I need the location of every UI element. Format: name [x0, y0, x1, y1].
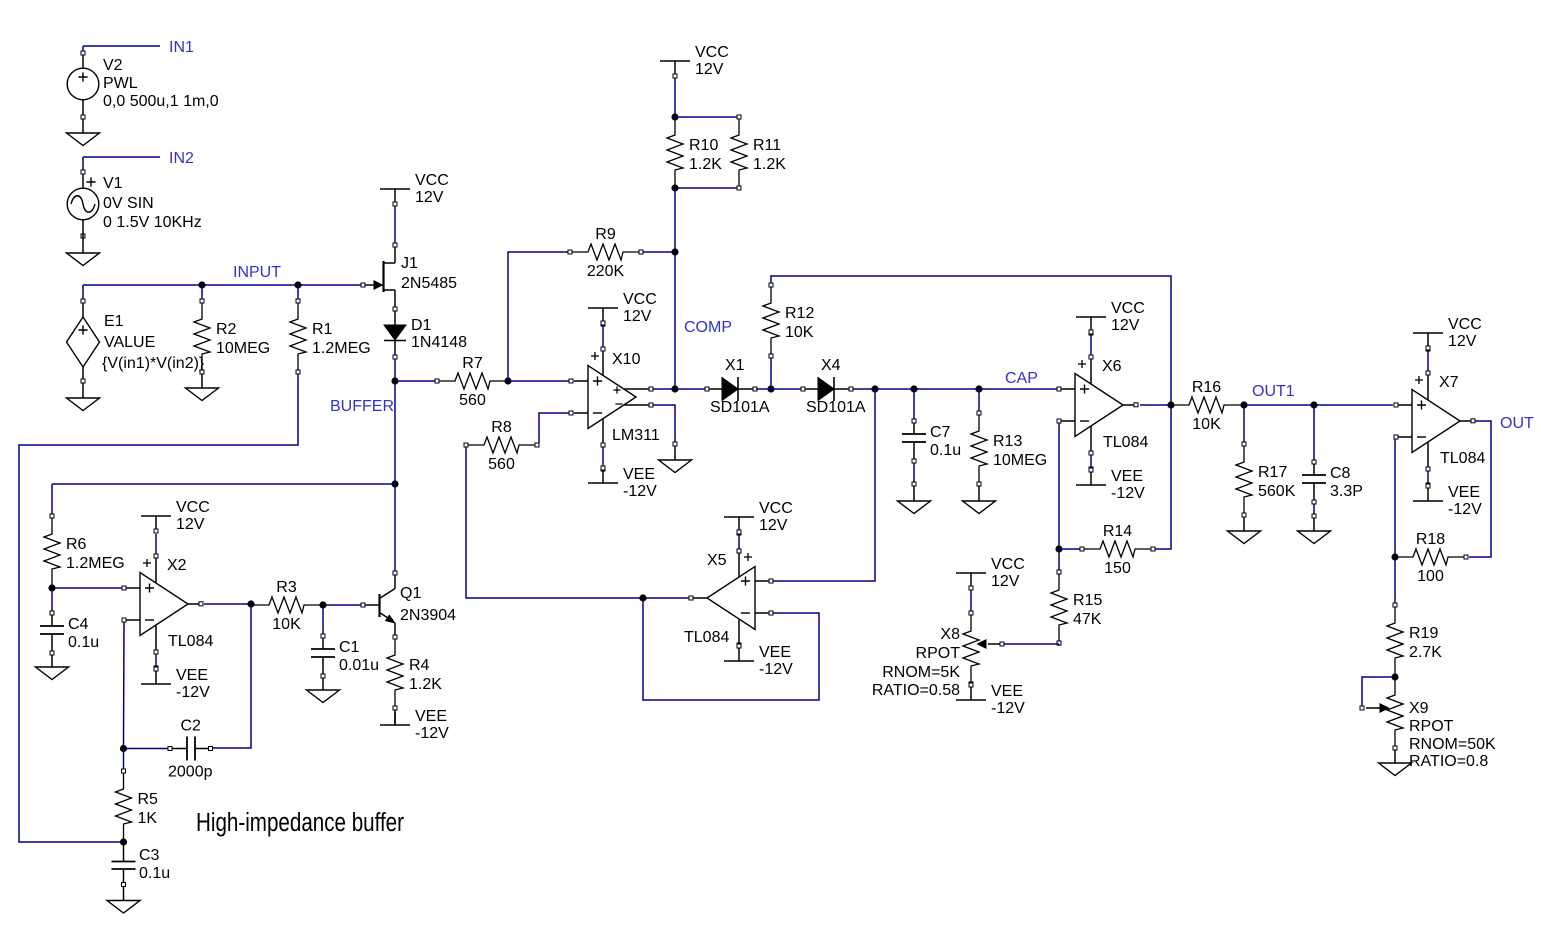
wire CAP to C7 [913, 389, 915, 419]
svg-text:VCC: VCC [623, 291, 657, 308]
svg-text:TL084: TL084 [1440, 450, 1485, 467]
svg-text:220K: 220K [587, 263, 625, 280]
wire VCC to J1 drain [394, 206, 396, 243]
op-amp X2 TL084 [122, 534, 213, 670]
dependent source E1 [67, 303, 205, 379]
svg-text:TL084: TL084 [684, 629, 729, 646]
VEE symbol at X8 [956, 683, 1025, 717]
junction R7 R9 X10 [504, 377, 511, 384]
voltage source V2 [67, 55, 219, 115]
wire X9 to ground [1394, 750, 1396, 763]
wire to ground [674, 446, 676, 460]
op-amp X7 TL084 [1394, 351, 1485, 487]
wire R6 node to C4 [51, 590, 53, 611]
pin X10 +in [569, 379, 573, 383]
junction R6 X2 +in C4 [48, 584, 55, 591]
svg-text:RPOT: RPOT [916, 645, 961, 662]
wire INPUT to R2 [201, 285, 203, 299]
junction CAP C7 [910, 385, 917, 392]
svg-text:R12: R12 [785, 305, 814, 322]
svg-text:10MEG: 10MEG [216, 340, 270, 357]
svg-text:SD101A: SD101A [806, 399, 866, 416]
resistor R3 [251, 579, 322, 633]
ground below C3 [107, 901, 140, 914]
wire VCC to X8 [970, 590, 972, 611]
svg-text:12V: 12V [1448, 333, 1477, 350]
svg-text:R19: R19 [1409, 625, 1438, 642]
wire VCC to R10 [674, 78, 676, 115]
wire to R14 [1059, 548, 1080, 550]
svg-text:R7: R7 [462, 355, 483, 372]
VCC symbol at X10 [588, 291, 657, 325]
junction X2 -in C2 R5 [120, 745, 127, 752]
svg-text:2N5485: 2N5485 [401, 275, 457, 292]
junction X10 output COMP [671, 385, 678, 392]
wire C1 to ground [322, 678, 324, 690]
capacitor C2 [126, 718, 213, 781]
wire R3 to Q1 base [325, 604, 361, 606]
svg-text:VEE: VEE [1448, 484, 1480, 501]
svg-text:{V(in1)*V(in2)}: {V(in1)*V(in2)} [102, 355, 205, 372]
wire net IN2 [83, 156, 160, 158]
wire CAP to R13 [978, 389, 980, 411]
svg-text:C8: C8 [1330, 465, 1351, 482]
svg-text:R18: R18 [1416, 531, 1445, 548]
wire R4 to VEE [394, 710, 396, 725]
resistor R6 [44, 514, 125, 587]
pin X5 V+ [737, 531, 741, 535]
svg-text:12V: 12V [1111, 317, 1140, 334]
svg-text:12V: 12V [415, 189, 444, 206]
svg-text:560K: 560K [1258, 483, 1296, 500]
svg-text:-12V: -12V [1448, 501, 1482, 518]
wire C7 to ground [913, 486, 915, 501]
svg-text:PWL: PWL [103, 75, 138, 92]
VEE symbol at X5 [724, 644, 793, 678]
wire X1 to X4 [756, 388, 801, 390]
capacitor C8 [1302, 460, 1363, 504]
wire R7 node up to R9 [508, 252, 568, 381]
svg-text:1.2K: 1.2K [689, 156, 722, 173]
svg-text:High-impedance buffer: High-impedance buffer [196, 809, 404, 837]
junction X5 out R8 loop [639, 594, 646, 601]
svg-text:VEE: VEE [1111, 468, 1143, 485]
svg-text:COMP: COMP [684, 319, 732, 336]
wire X6 out [1140, 404, 1169, 406]
svg-text:X4: X4 [821, 357, 841, 374]
svg-text:C7: C7 [930, 424, 951, 441]
svg-text:VEE: VEE [991, 683, 1023, 700]
svg-text:OUT: OUT [1500, 415, 1534, 432]
svg-text:C2: C2 [181, 718, 202, 735]
potentiometer X8 RPOT [872, 611, 1000, 699]
wire X6 -in down [1058, 423, 1060, 570]
svg-text:R8: R8 [491, 419, 512, 436]
wire COMP to X1 [677, 388, 705, 390]
transistor J1 2N5485 JFET [365, 247, 457, 307]
svg-text:RATIO=0.8: RATIO=0.8 [1409, 753, 1488, 770]
svg-text:-12V: -12V [623, 483, 657, 500]
wire INPUT to R1 [297, 285, 299, 299]
pin Q1 base [361, 603, 365, 607]
wire to R11 top [675, 116, 737, 118]
junction X1 X4 R12 [767, 385, 774, 392]
junction OUT1 C8 [1310, 401, 1317, 408]
wire C3 to ground [123, 887, 125, 901]
VEE symbol at X7 [1413, 484, 1482, 518]
svg-text:R11: R11 [753, 137, 781, 154]
pin X5 out [689, 596, 693, 600]
wire R6 to X2 +in [54, 587, 122, 589]
wire R8 to X5 output node [466, 447, 641, 598]
svg-text:-12V: -12V [759, 661, 793, 678]
junction R3 C1 Q1 [319, 601, 326, 608]
svg-text:X7: X7 [1439, 374, 1459, 391]
VCC symbol at X7 [1413, 316, 1482, 350]
diode X1 SD101A [705, 357, 770, 416]
resistor R17 [1236, 442, 1296, 517]
junction INPUT R1 [294, 281, 301, 288]
svg-text:TL084: TL084 [1103, 434, 1148, 451]
svg-text:-12V: -12V [176, 684, 210, 701]
svg-text:X8: X8 [940, 626, 960, 643]
svg-text:560: 560 [488, 456, 515, 473]
resistor R14 [1080, 523, 1155, 577]
wire X10 out- to ground [653, 405, 675, 442]
resistor R8 [464, 419, 539, 473]
wire CAP to X5 +in [769, 389, 875, 581]
pin V1 + [81, 170, 85, 174]
svg-text:RATIO=0.58: RATIO=0.58 [872, 682, 960, 699]
svg-text:10K: 10K [272, 616, 301, 633]
svg-text:47K: 47K [1073, 611, 1102, 628]
pin C7 bottom [913, 463, 915, 482]
wire X2 out to C2 [208, 606, 251, 748]
pin X9 wiper [1360, 706, 1364, 710]
svg-text:R5: R5 [138, 791, 159, 808]
pin J1 gate [361, 283, 365, 287]
pin C8 bottom [1313, 504, 1315, 514]
wire R2 to ground [201, 374, 203, 388]
wire C4 to ground [51, 655, 53, 667]
ground below C1 [307, 690, 340, 703]
svg-text:10MEG: 10MEG [993, 452, 1047, 469]
pin X5 -in [769, 611, 773, 615]
pin X10 gnd [673, 442, 677, 446]
wire BUFFER to R6/X2 [52, 483, 395, 485]
svg-text:R6: R6 [66, 536, 87, 553]
svg-text:VCC: VCC [1448, 316, 1482, 333]
svg-text:1K: 1K [138, 810, 158, 827]
pin V1 - [81, 234, 85, 238]
svg-text:3.3P: 3.3P [1330, 483, 1363, 500]
svg-text:V1: V1 [103, 175, 123, 192]
svg-text:X1: X1 [725, 357, 745, 374]
capacitor C3 [112, 845, 171, 883]
ground below R2 [186, 388, 219, 401]
diode D1 1N4148 [384, 311, 467, 355]
svg-text:CAP: CAP [1005, 370, 1038, 387]
svg-text:J1: J1 [401, 255, 418, 272]
wire X9 wiper to top [1362, 677, 1393, 706]
pin X10 out+ [649, 387, 653, 391]
svg-text:12V: 12V [623, 308, 652, 325]
svg-text:R13: R13 [993, 433, 1022, 450]
svg-text:INPUT: INPUT [233, 264, 281, 281]
wire E1 top drop [82, 285, 84, 299]
wire X7 -in down [1394, 439, 1396, 555]
VCC symbol at X6 [1076, 300, 1145, 334]
svg-text:VCC: VCC [991, 556, 1025, 573]
svg-text:IN2: IN2 [169, 150, 194, 167]
VCC symbol at R10 [660, 44, 729, 78]
junction INPUT R2 [198, 281, 205, 288]
wire C2 node to R5 [123, 750, 125, 769]
junction CAP R13 [975, 385, 982, 392]
VCC symbol at J1 [380, 172, 449, 206]
wire COMP vertical [674, 188, 676, 387]
junction R10 R11 top [671, 113, 678, 120]
svg-text:VEE: VEE [623, 466, 655, 483]
svg-text:R3: R3 [276, 579, 297, 596]
diode X4 SD101A [801, 357, 866, 416]
resistor R2 [194, 299, 270, 374]
svg-text:C1: C1 [339, 639, 360, 656]
potentiometer X9 RPOT [1366, 677, 1496, 770]
pin X7 V+ [1426, 347, 1430, 351]
resistor R10 [667, 117, 722, 188]
wire X5 out to R8 node [645, 597, 689, 599]
pin E1 - [81, 379, 85, 383]
wire R1 feedback to C3 node [19, 374, 298, 842]
svg-text:VCC: VCC [759, 500, 793, 517]
pin Q1 emitter [393, 635, 397, 639]
svg-text:X10: X10 [612, 351, 641, 368]
svg-text:VEE: VEE [759, 644, 791, 661]
resistor R11 [731, 115, 786, 190]
junction R9 COMP [671, 248, 678, 255]
junction R16 OUT1 R17 [1240, 401, 1247, 408]
resistor R13 [971, 411, 1047, 486]
wire R3 node to C1 [322, 607, 324, 634]
wire R13 to ground [978, 486, 980, 501]
transistor Q1 2N3904 NPN [365, 571, 456, 635]
wire R12 to diode node [770, 358, 772, 387]
junction R5 C3 feedback [120, 838, 127, 845]
resistor R9 [568, 226, 643, 280]
svg-text:LM311: LM311 [612, 427, 660, 444]
wire V2 to ground [82, 119, 84, 133]
resistor R16 [1171, 379, 1242, 433]
svg-text:E1: E1 [104, 313, 124, 330]
svg-text:-12V: -12V [991, 700, 1025, 717]
wire R9 to COMP node [643, 251, 675, 253]
svg-text:100: 100 [1417, 568, 1444, 585]
junction X6 out feedback [1167, 401, 1174, 408]
pin Q1 collector [393, 571, 397, 575]
capacitor C1 [311, 634, 379, 678]
svg-text:RNOM=50K: RNOM=50K [1409, 736, 1496, 753]
svg-text:X6: X6 [1102, 358, 1122, 375]
svg-text:10K: 10K [1192, 416, 1221, 433]
svg-text:C4: C4 [68, 616, 89, 633]
wire net CAP [853, 388, 1057, 390]
ground below E1 [67, 398, 100, 411]
svg-text:VALUE: VALUE [104, 334, 155, 351]
junction CAP X5 [871, 385, 878, 392]
svg-text:X5: X5 [707, 552, 727, 569]
capacitor C4 [40, 611, 99, 655]
wire BUFFER branch to R6 [51, 484, 53, 514]
pin C2 right [209, 747, 213, 751]
VCC symbol at X2 [141, 499, 210, 533]
wire X10 out+ to COMP [653, 388, 673, 390]
wire C8 to ground [1313, 518, 1315, 531]
junction X7 -in R18 R19 [1391, 553, 1398, 560]
junction BUFFER R7 [391, 377, 398, 384]
svg-text:C3: C3 [139, 847, 160, 864]
svg-text:OUT1: OUT1 [1252, 383, 1295, 400]
svg-text:R1: R1 [312, 321, 333, 338]
pin V2 - [81, 115, 85, 119]
svg-text:12V: 12V [176, 516, 205, 533]
wire net INPUT [83, 284, 362, 286]
svg-text:2N3904: 2N3904 [400, 607, 456, 624]
pin X5 +in [769, 579, 773, 583]
wire R7 to X10 +in [510, 380, 569, 382]
svg-text:R2: R2 [216, 321, 237, 338]
wire OUT1 to C8 [1313, 407, 1315, 460]
wire R15 to X8 wiper [1004, 643, 1059, 645]
svg-text:12V: 12V [695, 61, 724, 78]
svg-text:RPOT: RPOT [1409, 718, 1454, 735]
junction BUFFER X2 branch [391, 480, 398, 487]
svg-text:-12V: -12V [1111, 485, 1145, 502]
svg-text:R4: R4 [409, 657, 430, 674]
svg-text:VEE: VEE [176, 667, 208, 684]
resistor R15 [1051, 570, 1102, 645]
svg-text:-12V: -12V [415, 725, 449, 742]
junction R19 X9 [1391, 673, 1398, 680]
wire X5 feedback loop [643, 600, 819, 700]
wire OUT1 to R17 [1243, 407, 1245, 442]
svg-text:0.1u: 0.1u [68, 634, 99, 651]
wire R17 to ground [1243, 517, 1245, 531]
voltage source V1 [67, 174, 202, 231]
resistor R18 [1395, 531, 1468, 585]
svg-text:1.2MEG: 1.2MEG [66, 555, 125, 572]
wire net IN1 [83, 45, 160, 47]
svg-text:BUFFER: BUFFER [330, 398, 394, 415]
pin X6 V+ [1089, 331, 1093, 335]
op-amp X10 LM311 [574, 326, 660, 467]
wire E1 to ground [82, 383, 84, 398]
wire R18 node to R19 [1394, 559, 1396, 603]
svg-text:150: 150 [1104, 560, 1131, 577]
pin X9 bottom [1393, 746, 1397, 750]
wire R14 to X6 out [1155, 407, 1171, 549]
svg-text:1.2MEG: 1.2MEG [312, 340, 371, 357]
pin X8 wiper [1000, 642, 1004, 646]
ground below V1 [67, 253, 100, 266]
svg-text:TL084: TL084 [168, 633, 213, 650]
wire BUFFER to R7 [395, 380, 435, 382]
svg-text:12V: 12V [991, 573, 1020, 590]
wire V1 to ground [82, 220, 84, 253]
svg-text:1.2K: 1.2K [753, 156, 786, 173]
ground below C4 [36, 667, 69, 680]
pin X5 V- [737, 643, 741, 647]
ground at X10 out- [659, 460, 692, 473]
ground below C7 [898, 501, 931, 514]
resistor R19 [1387, 603, 1442, 676]
svg-text:Q1: Q1 [400, 585, 421, 602]
pin X10 V+ [601, 322, 605, 326]
wire X7 out to R18 [1469, 421, 1491, 557]
svg-text:IN1: IN1 [169, 39, 194, 56]
VEE symbol at R4 [380, 708, 449, 742]
pin X10 -in [569, 411, 573, 415]
svg-text:VEE: VEE [415, 708, 447, 725]
pin X10 V- [601, 443, 605, 447]
svg-text:12V: 12V [759, 517, 788, 534]
VEE symbol at X10 [588, 466, 657, 500]
pin X10 out- [649, 403, 653, 407]
svg-text:R10: R10 [689, 137, 718, 154]
ground below C8 [1298, 531, 1331, 544]
VEE symbol at X6 [1076, 468, 1145, 502]
wire feedback X6 out to R12 [771, 276, 1171, 403]
svg-text:R16: R16 [1192, 379, 1221, 396]
resistor R5 [116, 769, 159, 842]
capacitor C7 [902, 419, 961, 463]
svg-text:2.7K: 2.7K [1409, 644, 1442, 661]
svg-text:SD101A: SD101A [710, 399, 770, 416]
wire net BUFFER vertical [394, 359, 396, 571]
VEE symbol at X2 [141, 667, 210, 701]
svg-text:0 1.5V 10KHz: 0 1.5V 10KHz [103, 214, 202, 231]
svg-text:560: 560 [459, 392, 486, 409]
wire net OUT1 [1244, 404, 1393, 406]
svg-text:VCC: VCC [415, 172, 449, 189]
svg-text:VCC: VCC [1111, 300, 1145, 317]
pin C2 left [168, 747, 172, 751]
svg-text:X9: X9 [1409, 700, 1429, 717]
svg-text:RNOM=5K: RNOM=5K [882, 664, 960, 681]
pin D1 cathode [393, 355, 397, 359]
resistor R4 [387, 635, 442, 710]
ground below X9 [1379, 763, 1412, 776]
svg-text:10K: 10K [785, 324, 814, 341]
junction X6 -in R14 R15 [1055, 545, 1062, 552]
svg-text:R17: R17 [1258, 464, 1287, 481]
junction R10 R11 bottom [671, 184, 678, 191]
wire IN1 drop [82, 46, 84, 52]
svg-text:0V SIN: 0V SIN [103, 195, 154, 212]
svg-text:1N4148: 1N4148 [411, 334, 467, 351]
svg-text:X2: X2 [167, 557, 187, 574]
pin V2 + [81, 51, 85, 55]
pin C3 bottom [122, 883, 126, 887]
VCC symbol at X8 [956, 556, 1025, 590]
wire R8 to X10 -in [539, 413, 569, 443]
svg-text:D1: D1 [411, 317, 432, 334]
VCC symbol at X5 [724, 500, 793, 534]
pin J1 drain [393, 243, 397, 247]
svg-text:0.01u: 0.01u [339, 657, 379, 674]
svg-text:VCC: VCC [176, 499, 210, 516]
svg-text:R9: R9 [595, 226, 616, 243]
